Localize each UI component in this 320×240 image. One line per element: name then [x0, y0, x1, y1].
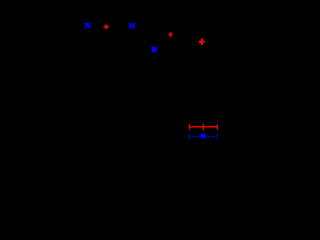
- blue dashed ruler line: [193, 136, 217, 138]
- charge +3 (bold red plus, cationic centre marker): [199, 38, 205, 44]
- red distance ruler (solid): [189, 124, 218, 131]
- square marker: [201, 134, 206, 139]
- molecule skeleton (black strokes, invisible over black background): [64, 18, 198, 64]
- atom N3 (blue square marker, quaternary nitrogen site): [152, 47, 157, 53]
- blue distance ruler (dashed): [189, 134, 218, 140]
- middle tick: [203, 124, 204, 131]
- right end tick: [217, 124, 218, 130]
- svg-text:N: N: [85, 21, 91, 30]
- carbonyl bond: [187, 36, 189, 46]
- svg-text:N: N: [129, 22, 136, 31]
- bond N2 to chain: [136, 29, 151, 45]
- charge +2 (red plus): [168, 32, 173, 37]
- methyl bonds on quaternary N: [142, 40, 154, 64]
- left end tick: [189, 124, 190, 130]
- ruler line: [189, 126, 217, 127]
- right end tick (dashed: two segments): [217, 134, 218, 136]
- charge +1 (red plus): [104, 24, 110, 29]
- bond ring A to chain: [92, 28, 129, 34]
- pyridine ring A: [64, 18, 84, 42]
- bond N3 to ester chain: [158, 46, 198, 52]
- left end tick: [189, 134, 190, 139]
